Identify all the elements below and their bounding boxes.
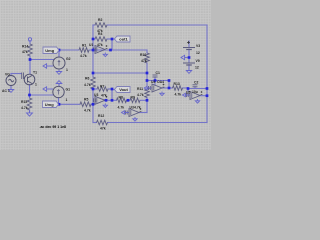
svg-text:47k: 47k: [22, 50, 28, 54]
svg-text:T1: T1: [33, 71, 37, 75]
svg-text:Umg: Umg: [45, 102, 54, 107]
svg-text:R11: R11: [137, 87, 143, 91]
svg-text:12: 12: [195, 66, 199, 70]
svg-text:R5: R5: [84, 98, 88, 102]
svg-text:4.7k: 4.7k: [137, 93, 144, 97]
svg-text:4.7k: 4.7k: [21, 106, 28, 110]
svg-text:47k: 47k: [100, 127, 106, 131]
svg-text:R8: R8: [119, 95, 123, 99]
svg-text:R1: R1: [82, 44, 86, 48]
svg-text:12: 12: [196, 51, 200, 55]
svg-text:AC 1: AC 1: [2, 89, 10, 93]
svg-text:R14: R14: [22, 45, 28, 49]
svg-text:1: 1: [66, 98, 68, 102]
svg-text:U5: U5: [186, 90, 190, 94]
svg-text:VG: VG: [5, 73, 10, 77]
svg-text:R13: R13: [174, 82, 180, 86]
svg-text:V3: V3: [196, 44, 200, 48]
svg-text:U4: U4: [151, 80, 155, 84]
svg-text:4.7k: 4.7k: [84, 108, 91, 112]
svg-text:V9: V9: [196, 59, 200, 63]
svg-text:R7: R7: [100, 85, 104, 89]
svg-text:4.7k: 4.7k: [80, 54, 87, 58]
svg-text:R9: R9: [131, 95, 135, 99]
svg-text:1: 1: [35, 83, 37, 87]
svg-text:47k: 47k: [101, 94, 107, 98]
svg-text:47k: 47k: [97, 43, 103, 47]
svg-text:out1: out1: [119, 36, 128, 41]
svg-text:R10: R10: [140, 53, 146, 57]
svg-text:47k: 47k: [141, 59, 147, 63]
svg-text:R12: R12: [98, 114, 104, 118]
svg-text:R6: R6: [85, 77, 89, 81]
svg-text:G1: G1: [66, 88, 71, 92]
svg-text:C2: C2: [194, 80, 198, 84]
svg-text:OA4: OA4: [157, 80, 164, 84]
svg-text:R15: R15: [21, 100, 27, 104]
svg-text:G2: G2: [66, 57, 71, 61]
svg-text:Vout: Vout: [119, 87, 128, 92]
svg-text:4.7k: 4.7k: [175, 93, 182, 97]
svg-text:1: 1: [66, 68, 68, 72]
svg-text:Umg: Umg: [45, 48, 54, 53]
svg-text:.ac dec 99 1 1e8: .ac dec 99 1 1e8: [40, 125, 67, 129]
svg-text:4.7k: 4.7k: [118, 105, 125, 109]
svg-text:R2: R2: [98, 18, 102, 22]
svg-text:U3: U3: [94, 93, 98, 97]
svg-text:10u: 10u: [192, 90, 198, 94]
svg-text:4.7k: 4.7k: [134, 106, 141, 110]
svg-text:R4: R4: [98, 32, 102, 36]
svg-text:4.7k: 4.7k: [84, 83, 91, 87]
svg-text:C1: C1: [156, 71, 160, 75]
svg-text:U1: U1: [89, 43, 93, 47]
